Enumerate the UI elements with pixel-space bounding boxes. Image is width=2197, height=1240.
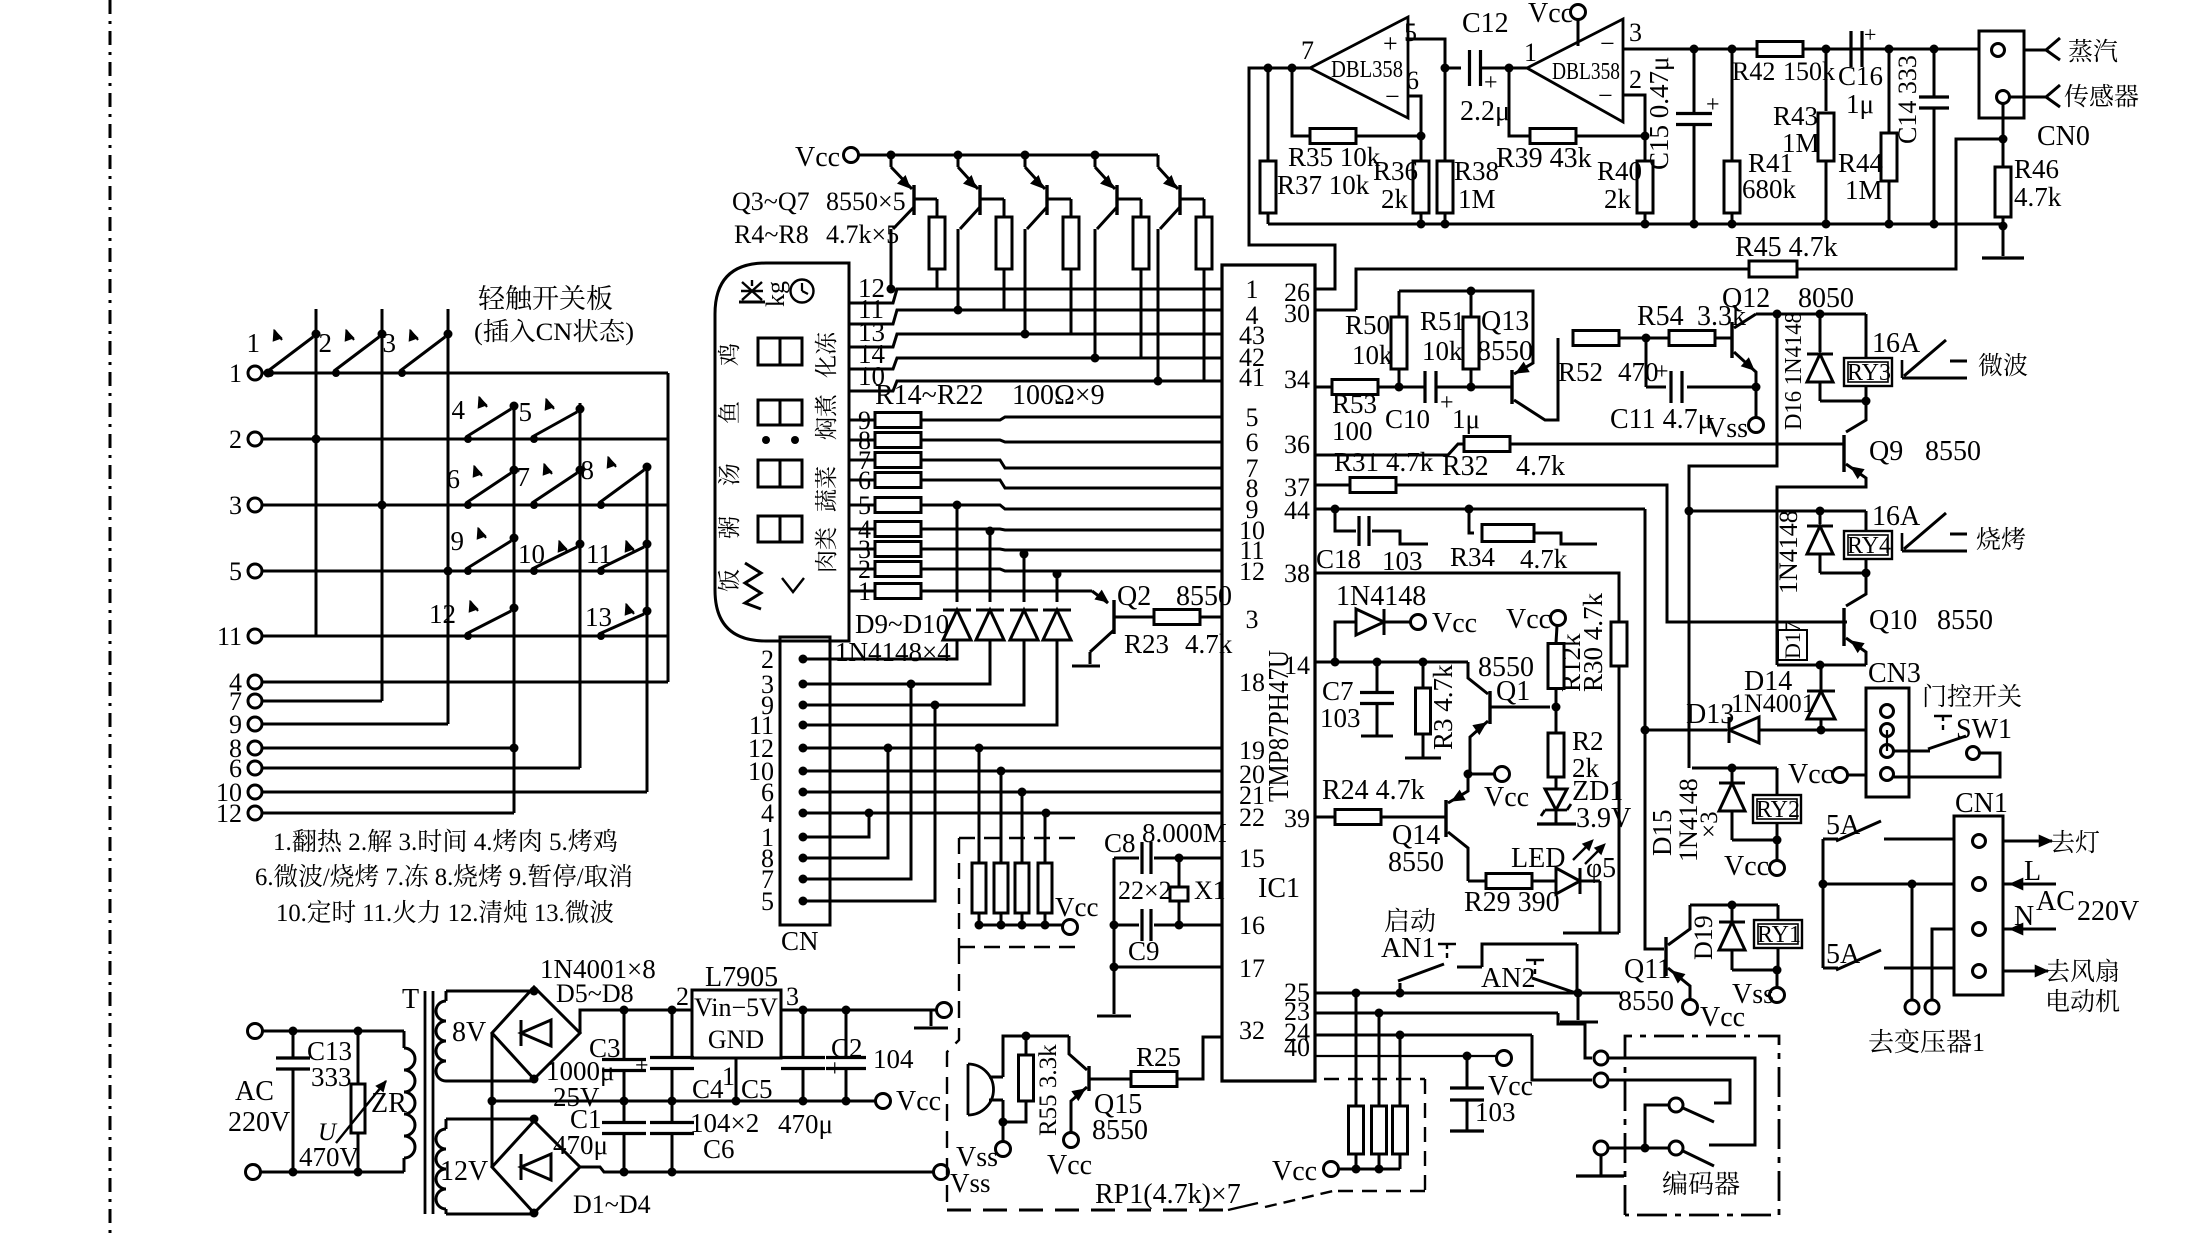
switch 5A top (1823, 810, 1954, 841)
svg-text:R4~R8: R4~R8 (734, 220, 809, 249)
capacitor C6 104x2 (650, 1101, 759, 1172)
svg-text:1: 1 (229, 359, 242, 388)
svg-text:饭: 饭 (711, 569, 744, 592)
svg-text:333: 333 (311, 1062, 352, 1092)
wire IC pin40 line (1315, 1051, 1512, 1066)
wire IC pin23 line to encoder (1315, 1009, 1592, 1059)
svg-text:C8: C8 (1104, 828, 1136, 858)
keypad junction dots (264, 369, 519, 753)
svg-text:8550: 8550 (1925, 436, 1981, 467)
contact switch 16A 烧烤 (1872, 501, 2026, 556)
RP1 dashed box A (959, 838, 1075, 947)
capacitor C16 1u (1838, 22, 1883, 119)
wire IC pin34 line (1315, 386, 1355, 389)
keypad row 3 wire (262, 504, 668, 507)
resistor R25 (1131, 1037, 1222, 1087)
wire IC pin24 line to encoder (1315, 1031, 1592, 1081)
resistor R53 100 (1332, 380, 1424, 447)
svg-text:1μ: 1μ (1452, 404, 1480, 434)
connector CN1 (1954, 788, 2008, 995)
keypad switch 11 (586, 539, 652, 575)
wire CN pin5 to pin9 line (803, 705, 935, 901)
wire CN pin9 to D11 (803, 640, 1024, 710)
diode D13 (1686, 699, 1866, 743)
keypad switch 7 (517, 462, 585, 509)
keypad row 11 wire (262, 635, 668, 638)
capacitor C4 (650, 1010, 724, 1104)
svg-text:8550×5: 8550×5 (826, 187, 906, 216)
svg-text:鸡: 鸡 (711, 343, 744, 366)
svg-text:17: 17 (1239, 954, 1265, 983)
svg-text:2: 2 (319, 328, 333, 358)
svg-text:Vcc: Vcc (1724, 851, 1769, 882)
label R31 4.7k (1334, 447, 1434, 477)
capacitor C2 104 (826, 1010, 914, 1101)
svg-text:Vcc: Vcc (795, 142, 840, 173)
svg-text:kg: kg (761, 281, 790, 307)
svg-text:Q10: Q10 (1869, 605, 1917, 636)
transistor Q12 8050 (1722, 283, 1854, 387)
transistor Q11 8550 (1618, 905, 1745, 1033)
label R4~R8 4.7kx5 (734, 220, 899, 249)
svg-text:Q2: Q2 (1117, 581, 1151, 612)
crystal X1 22x2 (1118, 854, 1226, 930)
diode D16 1N4148 (1781, 312, 1866, 430)
capacitor C10 1u (1385, 371, 1480, 434)
IC1 box (1222, 265, 1315, 1081)
transistor Q4 (954, 151, 1005, 315)
op-amp U1B DBL358 (1524, 18, 1642, 122)
svg-text:470V: 470V (299, 1142, 360, 1172)
display icon clock (791, 280, 814, 303)
display icon grill V (782, 578, 804, 592)
keypad title 轻触开关板(插入CN状态) (474, 277, 634, 348)
svg-text:DBL358: DBL358 (1331, 57, 1403, 83)
resistor R21 display line 2 (849, 555, 1222, 584)
svg-text:+: + (1484, 70, 1498, 96)
label 1N4001x8 D5~D8 (540, 954, 656, 1010)
label D17 (1778, 621, 1807, 660)
ground rail under op-amps (1268, 223, 2005, 226)
ground symbol below R46 (1982, 226, 2024, 258)
svg-text:1: 1 (722, 1062, 735, 1091)
resistor R32 4.7k (1442, 437, 1565, 483)
resistor R30 4.7k (1578, 592, 1627, 933)
svg-text:7: 7 (517, 462, 531, 492)
wire op1 output to IC pin26 (1249, 64, 1335, 290)
keypad switch 12 (429, 599, 519, 640)
svg-text:Vcc: Vcc (1047, 1150, 1092, 1181)
svg-text:SW1: SW1 (1956, 714, 2012, 745)
svg-text:36: 36 (1284, 430, 1310, 459)
wire bridge2 left to Vcc rail (491, 1101, 494, 1167)
svg-text:Vcc: Vcc (896, 1086, 941, 1117)
svg-text:C12: C12 (1462, 8, 1509, 39)
svg-text:1M: 1M (1458, 184, 1496, 214)
wire display pin 10 to IC pin 41 (849, 361, 1222, 391)
RP1 element 6 (1372, 1013, 1387, 1169)
svg-text:AN1: AN1 (1381, 933, 1435, 964)
wire op1 plus input to C12 (1408, 39, 1461, 73)
resistor R34 4.7k (1450, 509, 1597, 574)
resistor R18 display line 5 (849, 491, 1222, 520)
wire op2 output pin3 rail (1623, 45, 1980, 54)
relay RY2 (1753, 768, 1801, 840)
svg-text:16: 16 (1239, 911, 1265, 940)
svg-text:C7: C7 (1322, 676, 1354, 706)
capacitor C5 470u (741, 1010, 842, 1139)
svg-text:D19: D19 (1689, 915, 1718, 960)
wire sensor line 1 蒸汽 (2024, 32, 2118, 68)
svg-text:Vin−5V: Vin−5V (694, 993, 778, 1022)
svg-text:15: 15 (1239, 844, 1265, 873)
svg-text:+: + (1864, 22, 1876, 47)
svg-text:470μ: 470μ (778, 1109, 833, 1139)
resistor R24 4.7k (1322, 775, 1446, 825)
page border dash-dot line (109, 0, 112, 1240)
svg-text:13: 13 (585, 602, 612, 632)
diode D19 (1689, 905, 1782, 975)
svg-text:8550: 8550 (1618, 986, 1674, 1017)
wire IC pin39 line (1315, 816, 1335, 819)
RP1 element 5 (1349, 993, 1364, 1169)
regulator L7905 (676, 962, 799, 1106)
svg-text:4.7k: 4.7k (2014, 182, 2062, 212)
wire 5A rail (1819, 839, 1828, 968)
wire L line (1823, 880, 1954, 889)
svg-text:8550: 8550 (1388, 847, 1444, 878)
keypad column wires (316, 309, 647, 813)
svg-text:R52: R52 (1558, 357, 1603, 387)
svg-text:CN: CN (781, 919, 819, 958)
wire CN pin11 to D12 (803, 640, 1057, 725)
svg-text:4: 4 (452, 395, 466, 425)
wire IC pin30 stub (1315, 309, 1356, 312)
resistor R7 (1133, 199, 1149, 358)
svg-text:18: 18 (1239, 668, 1265, 697)
svg-text:门控开关: 门控开关 (1922, 677, 2022, 713)
Vcc terminal above R1 (1506, 604, 1566, 643)
keypad row 1 wire (262, 372, 668, 375)
svg-text:R42: R42 (1732, 57, 1775, 86)
arrow L in (2003, 856, 2056, 890)
Vcc rail and terminal (492, 1086, 941, 1117)
svg-text:3: 3 (786, 982, 799, 1011)
svg-text:(插入CN状态): (插入CN状态) (474, 312, 634, 348)
svg-text:R51: R51 (1420, 306, 1465, 336)
svg-text:R45 4.7k: R45 4.7k (1735, 232, 1838, 263)
arrow 去风扇 电动机 (2003, 952, 2120, 1018)
svg-text:微波: 微波 (1978, 346, 2028, 382)
capacitor C18 103 (1316, 509, 1428, 576)
Vss terminal below Q12 (1706, 387, 1764, 444)
relay RY1 (1754, 905, 1802, 970)
svg-text:220V: 220V (228, 1107, 290, 1138)
connector CN3 (1866, 658, 1921, 797)
keypad right border wire (667, 373, 670, 682)
svg-text:R46: R46 (2014, 154, 2059, 184)
wire N to transformer (1925, 929, 1954, 1014)
bridge rectifier D5~D8 (492, 987, 580, 1084)
connector CN pin labels and dots (748, 645, 808, 916)
svg-text:1M: 1M (1845, 175, 1883, 205)
svg-text:+: + (1655, 359, 1669, 385)
resistor R36 2k (1373, 136, 1429, 229)
wire CN pin7 to pin3 line (803, 684, 911, 879)
svg-text:R34: R34 (1450, 542, 1496, 572)
wire Q12 collector rail (1756, 310, 1866, 319)
svg-text:12: 12 (429, 599, 456, 629)
resistor R17 display line 6 (849, 466, 1222, 495)
switch 5A bottom (1823, 939, 1954, 970)
svg-text:−: − (1600, 29, 1615, 58)
wire L to transformer (1905, 884, 1919, 1014)
keypad switch 9 (451, 526, 519, 575)
diode D15 1N4148 x3 (1647, 768, 1782, 862)
svg-text:104: 104 (873, 1044, 914, 1074)
resistor R3 4.7k (1405, 662, 1458, 758)
wire CN pin6 to IC pin21 (803, 788, 1222, 797)
resistor R40 2k (1597, 136, 1653, 229)
svg-text:C15 0.47μ: C15 0.47μ (1644, 57, 1674, 170)
svg-text:Q9: Q9 (1869, 436, 1903, 467)
resistor R42 150k (1732, 42, 1835, 87)
svg-text:5: 5 (519, 397, 533, 427)
svg-text:C9: C9 (1128, 936, 1160, 966)
op-amp U1A DBL358 (1301, 17, 1419, 118)
encoder ground (1576, 1155, 1624, 1176)
Vss terminal below RY1 (1732, 970, 1785, 1010)
RP1 element 2 (994, 771, 1008, 930)
keypad switch 1 (247, 328, 321, 377)
diode D18 1N4148 (1774, 510, 1866, 594)
wire IC pin25 line (1315, 989, 1620, 998)
svg-text:4.7k×5: 4.7k×5 (826, 220, 899, 249)
keypad row 4 wire (262, 681, 668, 684)
capacitor C11 4.7u (1610, 338, 1761, 435)
connector CN box (780, 637, 830, 925)
svg-text:焖煮: 焖煮 (808, 394, 841, 440)
svg-text:IC1: IC1 (1258, 873, 1300, 904)
transistor Q3 (887, 151, 938, 294)
svg-text:8550: 8550 (1937, 605, 1993, 636)
svg-text:1μ: 1μ (1846, 89, 1874, 119)
svg-text:R2: R2 (1572, 726, 1604, 756)
svg-text:ZR: ZR (371, 1088, 407, 1119)
wire CN pin10 to IC pin20 (803, 767, 1222, 776)
transistor Q1 8550 (1468, 652, 1561, 774)
keypad switch 10 (518, 539, 585, 575)
ground stub below AN2 node (1560, 993, 1598, 1022)
bridge rectifier D1~D4 (492, 1115, 580, 1218)
resistor R14 display line 9 (849, 406, 1222, 435)
RP1 element 1 (972, 748, 986, 930)
wire display pin 12 to IC pin 1 (849, 273, 1222, 303)
keypad row 12 wire (262, 812, 514, 815)
wire CN pin8 to pin12 line (803, 748, 888, 858)
resistor R22 display line 1 (849, 577, 1088, 606)
wire RY2 feed (1692, 764, 1777, 773)
svg-text:2: 2 (1629, 65, 1642, 94)
RP1 element 3 (1015, 792, 1029, 930)
svg-text:R38: R38 (1454, 156, 1499, 186)
svg-text:Vcc: Vcc (1528, 0, 1573, 29)
svg-text:1N4148×4: 1N4148×4 (835, 637, 951, 667)
svg-text:2: 2 (676, 982, 689, 1011)
svg-text:RY4: RY4 (1847, 533, 1891, 559)
keypad switch 3 (383, 328, 453, 377)
keypad switch 4 (452, 395, 519, 443)
capacitor C3 1000u 25V (546, 1010, 649, 1112)
svg-text:C10: C10 (1385, 404, 1430, 434)
resistor R8 (1196, 199, 1212, 381)
svg-text:C11 4.7μ: C11 4.7μ (1610, 404, 1713, 435)
svg-text:32: 32 (1239, 1016, 1265, 1045)
svg-text:6.微波/烧烤 7.冻 8.烧烤 9.暂停/取消: 6.微波/烧烤 7.冻 8.烧烤 9.暂停/取消 (255, 857, 633, 893)
svg-text:CN3: CN3 (1868, 658, 1921, 689)
svg-text:10.定时 11.火力 12.清炖 13.微波: 10.定时 11.火力 12.清炖 13.微波 (276, 893, 614, 929)
svg-text:22×2: 22×2 (1118, 876, 1172, 905)
svg-text:8550: 8550 (1477, 336, 1533, 367)
svg-text:R36: R36 (1373, 156, 1418, 186)
IC1 left pin numbers (1239, 275, 1265, 1045)
keypad row 10 wire (262, 791, 647, 794)
svg-text:R14~R22: R14~R22 (875, 380, 984, 411)
resistor R5 (996, 199, 1012, 310)
svg-text:22: 22 (1239, 803, 1265, 832)
resistor R52 470 (1558, 331, 1669, 388)
resistor R19 display line 4 (849, 515, 1222, 544)
svg-text:R3 4.7k: R3 4.7k (1428, 664, 1458, 750)
arrow N in (2003, 923, 2056, 934)
varistor ZR 470V (299, 1027, 407, 1177)
display digit box 3 (758, 460, 802, 487)
diode D12 (1043, 570, 1071, 726)
capacitor C17 103 at pin40 (1450, 1056, 1533, 1131)
capacitor C1 470u (553, 1101, 646, 1172)
svg-text:16A: 16A (1872, 501, 1921, 532)
svg-text:L7905: L7905 (705, 962, 778, 993)
wire IC pin36 to Q9 base (1315, 444, 1844, 455)
wire C8/C9 left to IC pin17 (1097, 858, 1222, 1016)
svg-text:470μ: 470μ (553, 1130, 608, 1160)
resistor R43 1M (1773, 49, 1834, 229)
svg-text:去变压器1: 去变压器1 (1868, 1022, 1985, 1059)
wire CN pin2 to D9 (803, 640, 957, 659)
arrow 去灯 (2003, 823, 2100, 859)
display digit box 2 (758, 400, 802, 425)
svg-text:D15: D15 (1647, 810, 1677, 857)
svg-text:R53: R53 (1332, 389, 1377, 419)
svg-text:R55 3.3k: R55 3.3k (1035, 1044, 1062, 1136)
svg-text:化冻: 化冻 (808, 331, 841, 378)
svg-text:Q11: Q11 (1624, 954, 1671, 985)
keypad row 9 wire (262, 723, 448, 726)
capacitor C12 2.2u (1460, 8, 1514, 127)
LED phi5 (1511, 840, 1616, 894)
resistor R35 10k (1288, 68, 1426, 172)
svg-text:CN1: CN1 (1955, 788, 2008, 819)
wire IC pin37 line (1315, 478, 1847, 623)
svg-text:30: 30 (1284, 299, 1310, 328)
svg-text:鱼: 鱼 (711, 401, 744, 424)
svg-text:R30 4.7k: R30 4.7k (1578, 592, 1608, 692)
svg-text:RY2: RY2 (1756, 797, 1800, 823)
svg-text:Vcc: Vcc (1055, 892, 1098, 922)
svg-text:R54: R54 (1637, 301, 1684, 332)
svg-text:44: 44 (1284, 496, 1310, 525)
keypad switch 5 (519, 397, 585, 443)
svg-text:Q13: Q13 (1481, 306, 1529, 337)
transistor Q13 8550 (1471, 291, 1558, 420)
svg-text:L: L (2024, 856, 2041, 887)
svg-text:11: 11 (217, 622, 242, 651)
RP1 box A Vcc terminal (979, 892, 1098, 935)
svg-text:8550: 8550 (1092, 1115, 1148, 1146)
keypad row 5 wire (262, 570, 668, 573)
svg-text:CN0: CN0 (2037, 121, 2090, 152)
svg-text:T: T (402, 984, 419, 1015)
transistor Q15 8550 (1047, 1036, 1148, 1181)
display digit box 1 (758, 338, 802, 365)
Vcc node terminal mid (1464, 767, 1530, 814)
transistor Q2 8550 (1072, 581, 1232, 666)
svg-text:传感器: 传感器 (2064, 77, 2139, 113)
svg-text:100Ω×9: 100Ω×9 (1012, 380, 1105, 411)
svg-text:12V: 12V (440, 1156, 488, 1187)
transistor Q5 (1021, 151, 1072, 339)
svg-text:+: + (635, 1053, 649, 1079)
resistor R20 display line 3 (849, 535, 1222, 564)
display colon dots (762, 436, 799, 444)
svg-text:AC: AC (2036, 886, 2075, 917)
encoder switch 1 (1645, 1098, 1714, 1148)
svg-text:D17: D17 (1780, 621, 1805, 659)
svg-text:RY3: RY3 (1847, 360, 1891, 386)
svg-text:12: 12 (216, 799, 242, 828)
svg-text:C6: C6 (703, 1134, 735, 1164)
RP1 element 4 (1038, 813, 1052, 930)
svg-text:12: 12 (1239, 557, 1265, 586)
svg-text:R35 10k: R35 10k (1288, 142, 1381, 172)
svg-text:100: 100 (1332, 416, 1373, 446)
svg-text:R24 4.7k: R24 4.7k (1322, 775, 1425, 806)
capacitor C7 103 (1320, 662, 1394, 736)
svg-text:8V: 8V (452, 1017, 486, 1048)
wire RY4 feed line (1689, 507, 1866, 516)
wire IC pin14 line (1315, 658, 1468, 667)
svg-text:C16: C16 (1838, 61, 1883, 91)
svg-text:Q1: Q1 (1496, 676, 1530, 707)
svg-text:AN2: AN2 (1481, 963, 1535, 994)
capacitor C8 (1104, 818, 1227, 874)
resistor R54 3.3k (1637, 301, 1746, 346)
wire op2 output (1509, 68, 1530, 136)
resistor R4 (929, 199, 945, 289)
wire Q11 collector rail (1690, 901, 1778, 910)
wire CN pin4 to IC pin22 (803, 809, 1222, 818)
svg-text:C2: C2 (831, 1033, 863, 1063)
svg-text:8: 8 (581, 455, 595, 485)
keypad switch 2 (319, 328, 387, 377)
svg-text:AC: AC (235, 1076, 274, 1107)
svg-text:3: 3 (229, 491, 242, 520)
contact switch 16A 微波 (1872, 328, 2028, 382)
svg-text:5: 5 (761, 887, 774, 916)
wire display pin 13 to IC pin 43 (849, 317, 1222, 347)
svg-text:9: 9 (451, 526, 465, 556)
resistor R38 1M (1437, 68, 1499, 229)
